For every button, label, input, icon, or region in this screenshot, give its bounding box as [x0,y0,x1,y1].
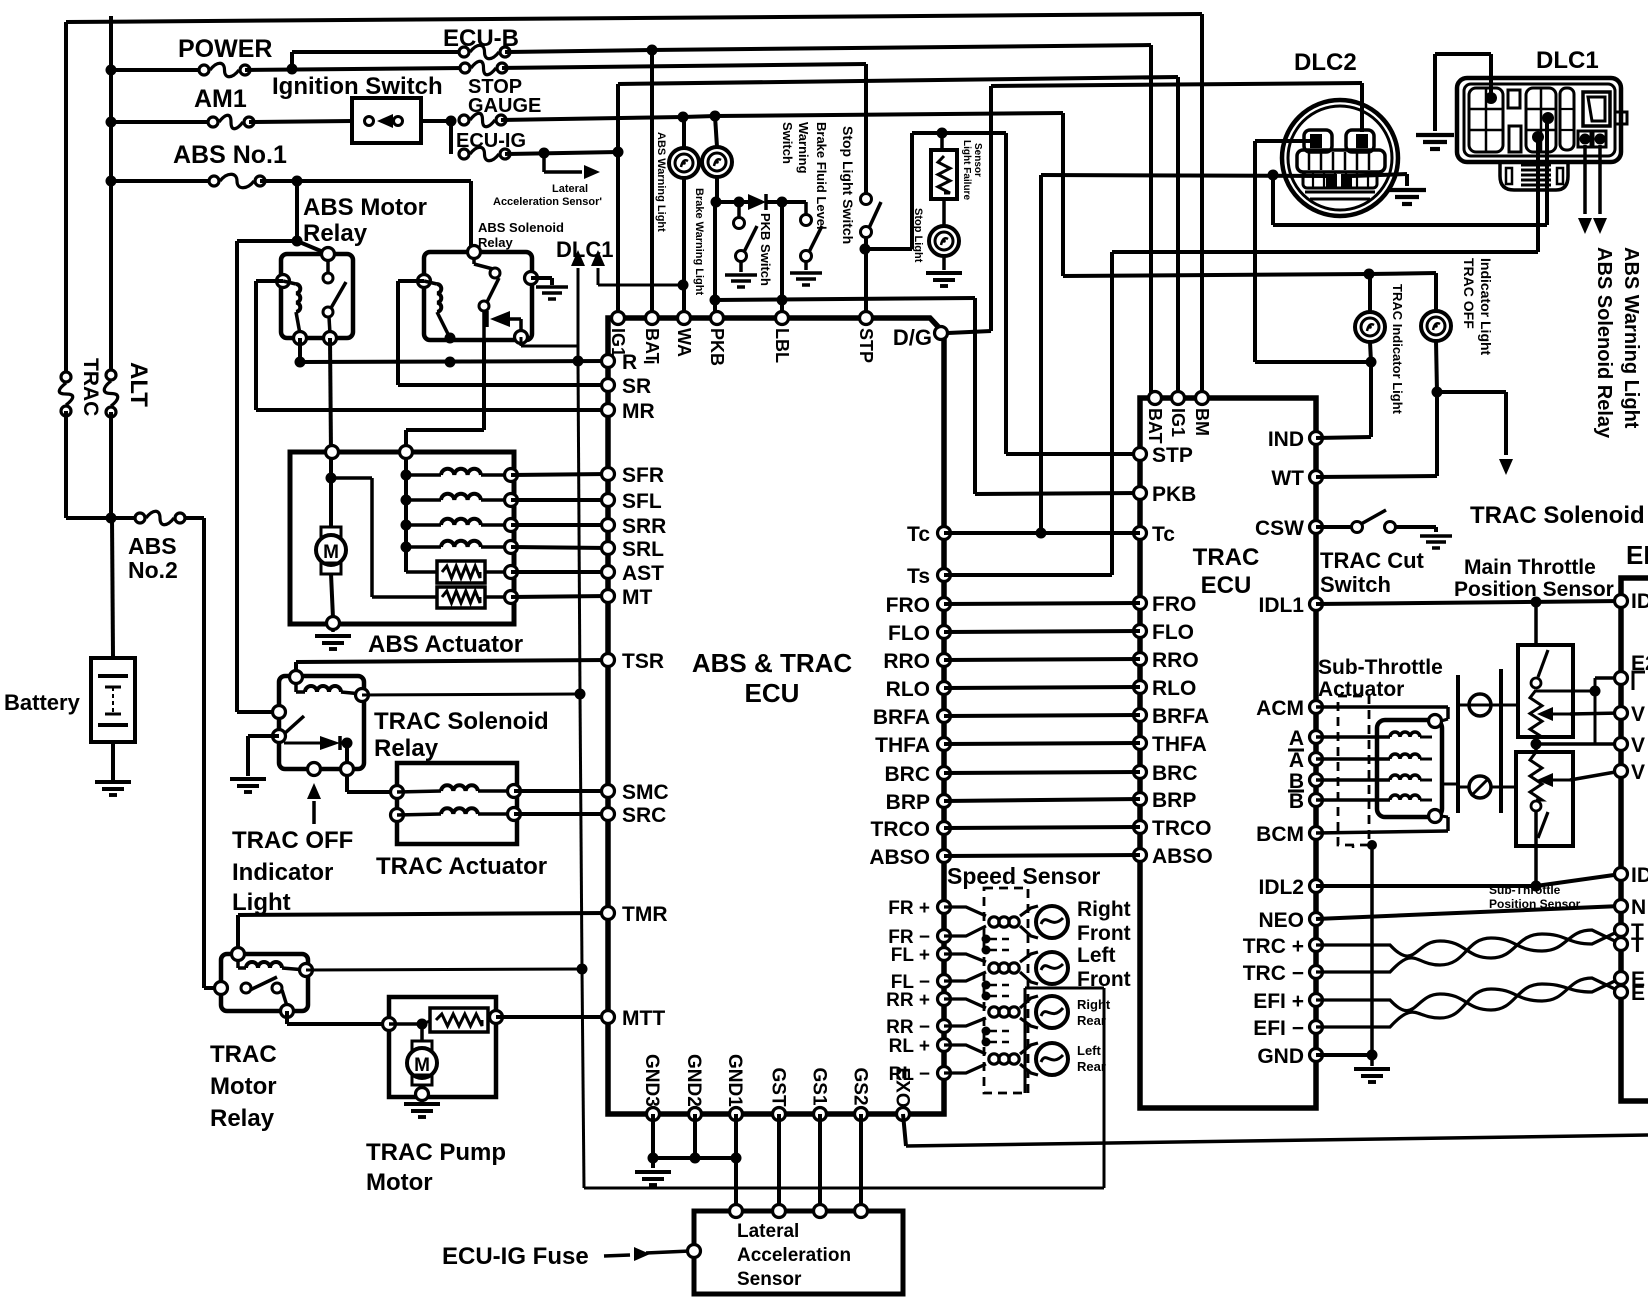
fuse ALT [104,370,118,417]
junction GND2 [690,1153,701,1164]
pin pump left [383,1018,396,1031]
pin ABS ECU FRO [938,598,951,611]
pin TRAC ECU RLO [1134,681,1147,694]
wire DLC2 ground [1352,174,1407,176]
svg-text:FRO: FRO [886,594,930,617]
DLC2 pin bottom 2 [1341,174,1352,187]
wire TRAC OFF lamp top [1434,273,1438,311]
pin coil block top [1429,715,1442,728]
fuse TRAC [59,372,73,416]
wire test line lower [582,969,584,1188]
svg-text:AST: AST [622,562,664,585]
pin ABS ECU LBL [776,312,789,325]
svg-text:TRCO: TRCO [1152,817,1212,840]
twisted pair TRC [1316,930,1621,958]
pin ABS ECU RR + [938,993,951,1006]
junction TRAC motor relay link [577,964,588,975]
pin relay bottom right [341,763,354,776]
wire SRR to ECU [511,523,608,527]
DLC1 bottom d right [1557,168,1563,184]
DLC1 key upper [1508,90,1520,108]
wire BCM [1316,831,1448,833]
ground PKB switch [725,275,757,287]
svg-text:Rear: Rear [1077,1013,1106,1028]
svg-text:FLO: FLO [1152,621,1194,644]
svg-text:Left: Left [1077,1043,1102,1058]
wire E2 link [1594,678,1597,691]
junction DLC wires [1268,170,1279,181]
pin TRAC ECU PKB [1134,487,1147,500]
pin ABS ECU RLO [938,682,951,695]
pin ABS ECU THFA [938,738,951,751]
wire motor internal [329,457,333,526]
wire [1369,273,1436,274]
svg-text:FL +: FL + [891,945,930,966]
shield tap dot [982,992,991,1001]
wire to stop light lamp [942,199,946,226]
coil phase B [1390,775,1420,780]
svg-text:No.2: No.2 [128,557,178,583]
wire coil SFL right [481,498,511,502]
svg-text:TRAC Solenoid: TRAC Solenoid [374,708,549,735]
pin ABS ECU IG1 [612,312,625,325]
pin ABS ECU GS2 [855,1108,868,1121]
wire ECU interconnect [944,855,1140,856]
linkage lower [1458,786,1501,789]
pin TRAC ECU NEO [1310,913,1323,926]
DLC1 left pin group [1469,88,1503,152]
junction bus/battery [106,513,117,524]
junction PKB to TRAC [710,295,721,306]
junction diode out [342,738,353,749]
wire to TRAC motor relay [204,986,221,990]
coil phase Bbar [1390,795,1420,800]
switch PKB upper contact [734,218,745,229]
wire POWER to STOP fuse [245,68,465,70]
svg-text:DLC1: DLC1 [1536,47,1599,74]
svg-text:BRP: BRP [1152,789,1196,812]
wire lateral sensor arrow stub [542,153,546,172]
pin lateral GST [773,1205,786,1218]
svg-text:DLC1: DLC1 [556,237,613,262]
DLC1 pin dot Tc [1542,112,1554,124]
pin TRAC ECU BRC [1134,766,1147,779]
wire PKB switch [737,202,741,217]
wire MT to ECU [511,596,608,597]
svg-text:Acceleration: Acceleration [737,1245,851,1266]
pin TRAC ECU BAT [1149,392,1162,405]
svg-text:N: N [1631,896,1646,919]
switch contact lower [323,307,333,317]
wire SFR to ECU [511,474,608,475]
switch contact lower [479,301,489,311]
svg-text:V: V [1631,703,1645,726]
svg-text:TRCO: TRCO [871,818,931,841]
wire IG1 top run [618,77,1178,84]
wire relay ground [248,734,279,738]
wire to TRAC STP pin [1006,452,1140,456]
switch IDL2 contact [1531,801,1541,811]
pin relay left lower [273,730,286,743]
wire to ABS solenoid relay [1583,145,1587,214]
svg-text:GS2: GS2 [850,1068,871,1106]
pin EFI ECU NE [1615,900,1628,913]
DLC2 housing ear right [1346,130,1374,152]
dashed shield box speed sensors [984,888,1028,1093]
junction BAT ABS [647,45,658,56]
dashed box sub-throttle actuator [1338,696,1369,845]
svg-text:BRC: BRC [885,763,931,786]
wire ABS No.1 out [260,179,471,183]
wire to TRAC solenoid [1437,390,1506,394]
DLC1 pin dot Ts [1532,131,1544,143]
pin TRAC ECU FRO [1134,597,1147,610]
junction LBL [777,295,788,306]
svg-text:IDL1: IDL1 [1258,594,1304,617]
wire DLC1 ground pin [1489,54,1493,95]
svg-text:ABS Warning Light: ABS Warning Light [1620,247,1642,429]
svg-text:ECU-IG Fuse: ECU-IG Fuse [442,1243,589,1270]
svg-text:Relay: Relay [210,1105,275,1132]
pin ABS ECU GND3 [647,1108,660,1121]
svg-text:SR: SR [622,375,651,398]
svg-text:ECU: ECU [745,678,800,708]
wire STP link [865,247,912,251]
svg-text:LBL: LBL [772,328,792,363]
ground ABS solenoid relay [536,287,568,299]
svg-text:IDL2: IDL2 [1258,876,1304,899]
pin EFI ECU TR [1615,924,1628,937]
wire Ts to DLC1 [1112,250,1538,254]
DLC1 pin dot sol [1580,134,1591,145]
shield tap dot [982,946,991,955]
DLC1 pin cell A [1578,131,1591,147]
pin TRAC ECU FLO [1134,625,1147,638]
wire NEO net [1316,906,1621,919]
wire brake warning lamp top [715,116,717,147]
svg-text:Acceleration Sensor': Acceleration Sensor' [493,196,602,208]
relay ABS Solenoid Relay [424,252,532,340]
svg-text:A: A [1289,749,1304,772]
shield tap dot [982,1038,991,1047]
svg-text:BM: BM [1192,408,1212,436]
wire Tc riser [1039,175,1043,533]
wire IG1 riser TRAC [1176,77,1180,398]
svg-text:PKB Switch: PKB Switch [758,213,773,286]
wire PKB pin riser [713,202,717,318]
svg-text:SRC: SRC [622,804,666,827]
wire ECU interconnect [944,743,1140,744]
lamp TRAC OFF Indicator Light [1421,311,1451,341]
wire GND pin [1316,1053,1372,1057]
svg-text:Light Failure: Light Failure [961,140,972,200]
coil ABS solenoid relay [437,284,441,312]
speed sensor Left Rear [944,1043,1068,1075]
svg-text:RR +: RR + [886,990,930,1011]
junction WT/TRAC solenoid [1432,387,1443,398]
wire GND1 drop [734,1114,738,1211]
wire bus to battery [112,518,113,656]
pin relay bottom left [308,763,321,776]
overline B bar [1288,790,1304,793]
svg-text:ABS Solenoid Relay: ABS Solenoid Relay [1593,247,1615,439]
pin TRAC ECU B [1310,774,1323,787]
switch contact upper [323,273,333,283]
svg-text:SFR: SFR [622,464,664,487]
arrow ECU-IG fuse [634,1247,650,1261]
shield tap dot [982,1027,991,1036]
svg-text:SRR: SRR [622,515,666,538]
wire ECU-IG fuse arrow [604,1255,630,1256]
pin ABS ECU AST [602,566,615,579]
svg-text:STP: STP [856,328,876,363]
wire [683,116,715,117]
pin EFI ECU VC [1615,738,1628,751]
junction Tc DLC2 [1036,528,1047,539]
lamp Stop Light [929,226,959,256]
wire rear sensor box left edge [1024,988,1027,1093]
DLC2 chin line 2 [1310,198,1370,201]
fuse GAUGE [459,113,506,127]
solenoid coil SMC [441,785,478,791]
solenoid coil SFR [441,469,481,475]
pin actuator SRR [505,519,518,532]
wire VTA2 [1570,771,1621,780]
pin actuator left upper [391,786,404,799]
svg-text:Relay: Relay [478,235,513,250]
svg-text:Light: Light [232,889,291,916]
pin actuator top motor [326,446,339,459]
switch blade [487,278,499,302]
svg-text:ID: ID [1631,864,1648,887]
wire left drop to TRAC solenoid relay [235,241,239,712]
pin relay coil bottom [294,332,307,345]
svg-text:IDL: IDL [1631,590,1648,613]
pin relay right [525,272,538,285]
wire ABS No.2 riser down [202,518,206,988]
junction bus SRL [401,542,412,553]
switch ignition [352,98,421,143]
svg-text:TRAC: TRAC [1193,544,1260,571]
pin TRAC ECU Tc [1134,527,1147,540]
wire GND2 drop [693,1114,697,1158]
wire SRL to ECU [511,547,608,548]
pin ABS ECU SFR [602,468,615,481]
speed sensor Right Front [944,906,1068,938]
svg-text:ACM: ACM [1256,697,1304,720]
wire R- to ECU [300,361,608,362]
svg-text:ABS No.1: ABS No.1 [173,141,287,169]
pin ABS ECU FL − [938,975,951,988]
throttle plate symbol lower [1469,776,1491,798]
svg-text:MR: MR [622,400,655,423]
wire R- net [298,338,302,362]
wire indicator feed riser [1061,113,1065,276]
throttle plate symbol upper [1469,694,1491,716]
svg-text:Indicator Light: Indicator Light [1478,258,1494,356]
pin actuator bottom [327,617,340,630]
svg-text:TRAC Cut: TRAC Cut [1320,548,1425,573]
svg-text:E: E [1631,982,1645,1005]
switch contact right [272,983,282,993]
arrow TRAC Solenoid [1499,459,1513,475]
svg-text:MT: MT [622,586,652,609]
svg-text:Actuator: Actuator [1318,678,1404,701]
svg-text:ECU: ECU [1201,572,1252,599]
svg-text:BRP: BRP [886,791,930,814]
pin TRAC ECU ACM [1310,701,1323,714]
wire [237,239,297,243]
wire light failure sensor top [940,133,944,150]
fuse ECU-B [459,45,510,59]
wire DLC1 test line [577,268,580,361]
junction brake warning lamp feed [710,111,721,122]
svg-text:ABSO: ABSO [1152,845,1213,868]
wire phase Bbar [1316,798,1390,802]
wire MT tap [331,476,372,480]
speed sensor Left Front [944,952,1068,984]
svg-text:Relay: Relay [303,220,368,247]
coil phase Abar [1390,754,1420,759]
pin TRAC ECU EFI − [1310,1021,1323,1034]
pin actuator AST [505,566,518,579]
wire lamp bottom [1370,342,1371,362]
wire relay to test line [306,969,582,970]
wire relay to pump motor [285,1011,289,1024]
ECU box ABS & TRAC ECU [608,318,944,1114]
wire GS2 drop [859,1114,863,1211]
svg-text:SMC: SMC [622,781,669,804]
pin ABS ECU GS1 [814,1108,827,1121]
svg-text:RL +: RL + [889,1036,930,1057]
wire AM1 line [111,120,213,124]
svg-text:Brake Fluid Level: Brake Fluid Level [814,122,829,230]
junction GND3 [648,1153,659,1164]
wire Ts net [944,573,1112,577]
svg-text:Stop Light: Stop Light [912,208,924,263]
wire TMR net [238,913,608,915]
svg-text:Lateral: Lateral [737,1221,799,1242]
wire feed to TRAC actuator [347,790,397,794]
wire ABS BAT riser [650,50,654,318]
svg-text:Rear: Rear [1077,1059,1106,1074]
wire AM1 to ignition switch [249,121,352,122]
solenoid coil SRC [441,808,478,814]
svg-text:Ignition Switch: Ignition Switch [272,73,443,100]
svg-text:WT: WT [1271,467,1304,490]
pin relay left upper [273,706,286,719]
pin EFI ECU IDL [1615,595,1628,608]
wire to ABS motor relay pin [297,241,328,254]
svg-text:TRAC Pump: TRAC Pump [366,1139,506,1166]
resistor pump motor [430,1008,488,1032]
pin EFI ECU E2 [1615,672,1628,685]
junction VC [1531,739,1542,750]
box Lateral Acceleration Sensor [694,1211,903,1294]
wire GAUGE line [501,117,683,120]
pin ABS ECU BRP [938,795,951,808]
wire GS1 drop [818,1114,822,1211]
svg-text:THFA: THFA [1152,733,1207,756]
wire solenoid bus feed [482,338,486,430]
svg-text:Tc: Tc [1152,523,1175,546]
pin relay top [322,248,335,261]
svg-text:TMR: TMR [622,903,668,926]
wire D/G net [948,331,991,333]
pin lateral GND1 [730,1205,743,1218]
wire E2 pin [1595,676,1621,680]
pin ABS ECU RL + [938,1039,951,1052]
ground brake fluid switch [790,273,822,285]
pin TRAC ECU RRO [1134,653,1147,666]
wire ALT fuse to bus [109,412,113,518]
pin TRAC ECU IDL2 [1310,880,1323,893]
svg-text:A: A [1289,727,1304,750]
wire Tc to DLC1 [1273,223,1547,227]
arrow ABS warning light [1593,218,1607,234]
pin relay switch bottom [324,332,337,345]
wire SMC to ECU [514,789,608,793]
wire TRAC indicator lamp top [1368,274,1372,312]
pin TRAC ECU IDL1 [1310,598,1323,611]
wire to ABS solenoid relay [469,181,473,252]
relay ABS Motor Relay [281,254,353,338]
wire LBL pin riser [780,202,784,318]
switch stop light blade [869,202,881,228]
svg-text:TRC −: TRC − [1243,962,1304,985]
svg-text:Sub-Throttle: Sub-Throttle [1318,656,1443,679]
svg-text:D/G: D/G [893,325,932,350]
svg-text:FLO: FLO [888,622,930,645]
wire actuator ground drop [1370,845,1374,1055]
junction actuator ground line [1367,840,1377,850]
pin ABS ECU BAT [646,312,659,325]
wire GND3 drop [651,1114,655,1158]
svg-text:STP: STP [1152,444,1193,467]
junction IG1 [613,147,624,158]
pin ABS ECU Tc [938,527,951,540]
svg-text:RRO: RRO [883,650,930,673]
pin EFI ECU IDL [1615,868,1628,881]
pin relay coil left [277,275,290,288]
svg-text:BCM: BCM [1256,823,1304,846]
wire BM riser to TRAC ECU [1200,14,1204,398]
ground TRAC cut switch [1420,536,1452,548]
wiper main throttle [1537,707,1553,721]
relay TRAC Solenoid Relay [279,676,364,769]
svg-text:Sensor: Sensor [972,143,983,177]
svg-text:ABS Warning Light: ABS Warning Light [655,132,667,232]
wire MR to ECU [256,408,608,412]
wire STP to TRAC riser [1004,133,1008,454]
resistor sub throttle pot [1530,752,1542,800]
wire SFL to ECU [511,498,608,502]
pin ABS ECU STP [860,312,873,325]
wire left battery branch upper [64,22,68,377]
pin ABS ECU BRC [938,767,951,780]
wire [237,710,279,714]
wire WT pin [1316,476,1437,477]
switch contact left [241,983,251,993]
pin EFI ECU EF [1615,986,1628,999]
wire MR net [256,279,283,283]
svg-text:Main Throttle: Main Throttle [1464,556,1596,579]
pin TRAC ECU GND [1310,1049,1323,1062]
wire EXO long run [906,1135,1648,1146]
linkage upper [1458,704,1501,707]
pin ABS ECU RR − [938,1020,951,1033]
junction GAUGE/ECU-IG [446,116,457,127]
